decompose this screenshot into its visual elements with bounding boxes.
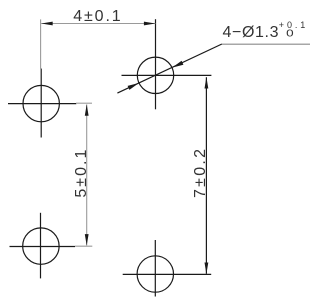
centerline horizontal bottom-right hole (extends right as extension line) [123,273,212,275]
extension line from top-left hole to 5±0.1 dimension [76,102,92,104]
centerline horizontal bottom-left hole [10,246,76,248]
arrowhead lower-left on hole edge [128,83,139,90]
svg-text:5±0.1: 5±0.1 [73,150,90,198]
dimension line 5±0.1 [86,105,88,246]
arrowhead top of 5±0.1 [85,104,89,116]
arrowhead bottom of 7±0.2 [205,263,209,275]
hole circle top-left [23,85,59,121]
centerline horizontal top-left hole [8,103,76,105]
centerline vertical top-right hole (extends up as extension line) [155,19,157,109]
leader/diameter dimension line through top-right hole [117,44,221,93]
centerline horizontal top-right hole (extends right as extension line) [122,74,212,76]
hole circle top-right [137,57,173,93]
extension line left of dimension 4±0.1 [40,19,42,69]
leader underline below 4-Ø1.3 text [222,43,310,45]
extension line from bottom-left hole to 5±0.1 dimension [75,245,92,247]
svg-text:4±0.1: 4±0.1 [73,8,121,25]
centerline vertical bottom-right hole [154,240,156,297]
dimension line 7±0.2 [205,77,207,273]
dimension line 4±0.1 [41,23,155,25]
arrowhead upper-right on hole edge [172,61,183,68]
centerline vertical top-left hole [40,69,42,138]
svg-text:7±0.2: 7±0.2 [192,149,209,198]
arrowhead left of 4±0.1 [41,22,53,26]
arrowhead bottom of 5±0.1 [85,234,89,246]
arrowhead top of 7±0.2 [205,77,209,89]
hole circle bottom-left [23,228,59,264]
hole circle bottom-right [137,256,173,292]
centerline vertical bottom-left hole [40,213,42,279]
svg-text:4−Ø1.3: 4−Ø1.3 [223,24,279,41]
arrowhead right of 4±0.1 [144,22,156,26]
svg-text:0: 0 [286,29,294,40]
